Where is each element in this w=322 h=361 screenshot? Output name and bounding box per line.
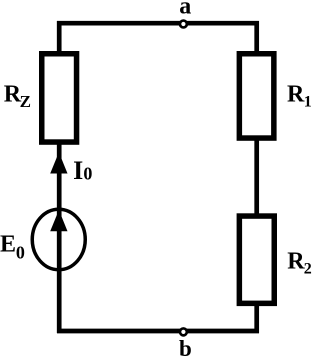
- svg-text:0: 0: [83, 164, 92, 184]
- svg-text:b: b: [179, 336, 192, 361]
- svg-text:Z: Z: [20, 92, 31, 111]
- svg-text:a: a: [179, 0, 191, 20]
- svg-text:R: R: [287, 82, 305, 108]
- svg-text:1: 1: [304, 94, 312, 111]
- svg-text:2: 2: [304, 261, 312, 278]
- svg-text:E: E: [0, 232, 16, 258]
- svg-text:R: R: [287, 249, 305, 275]
- svg-text:0: 0: [16, 243, 25, 263]
- svg-text:I: I: [73, 156, 83, 185]
